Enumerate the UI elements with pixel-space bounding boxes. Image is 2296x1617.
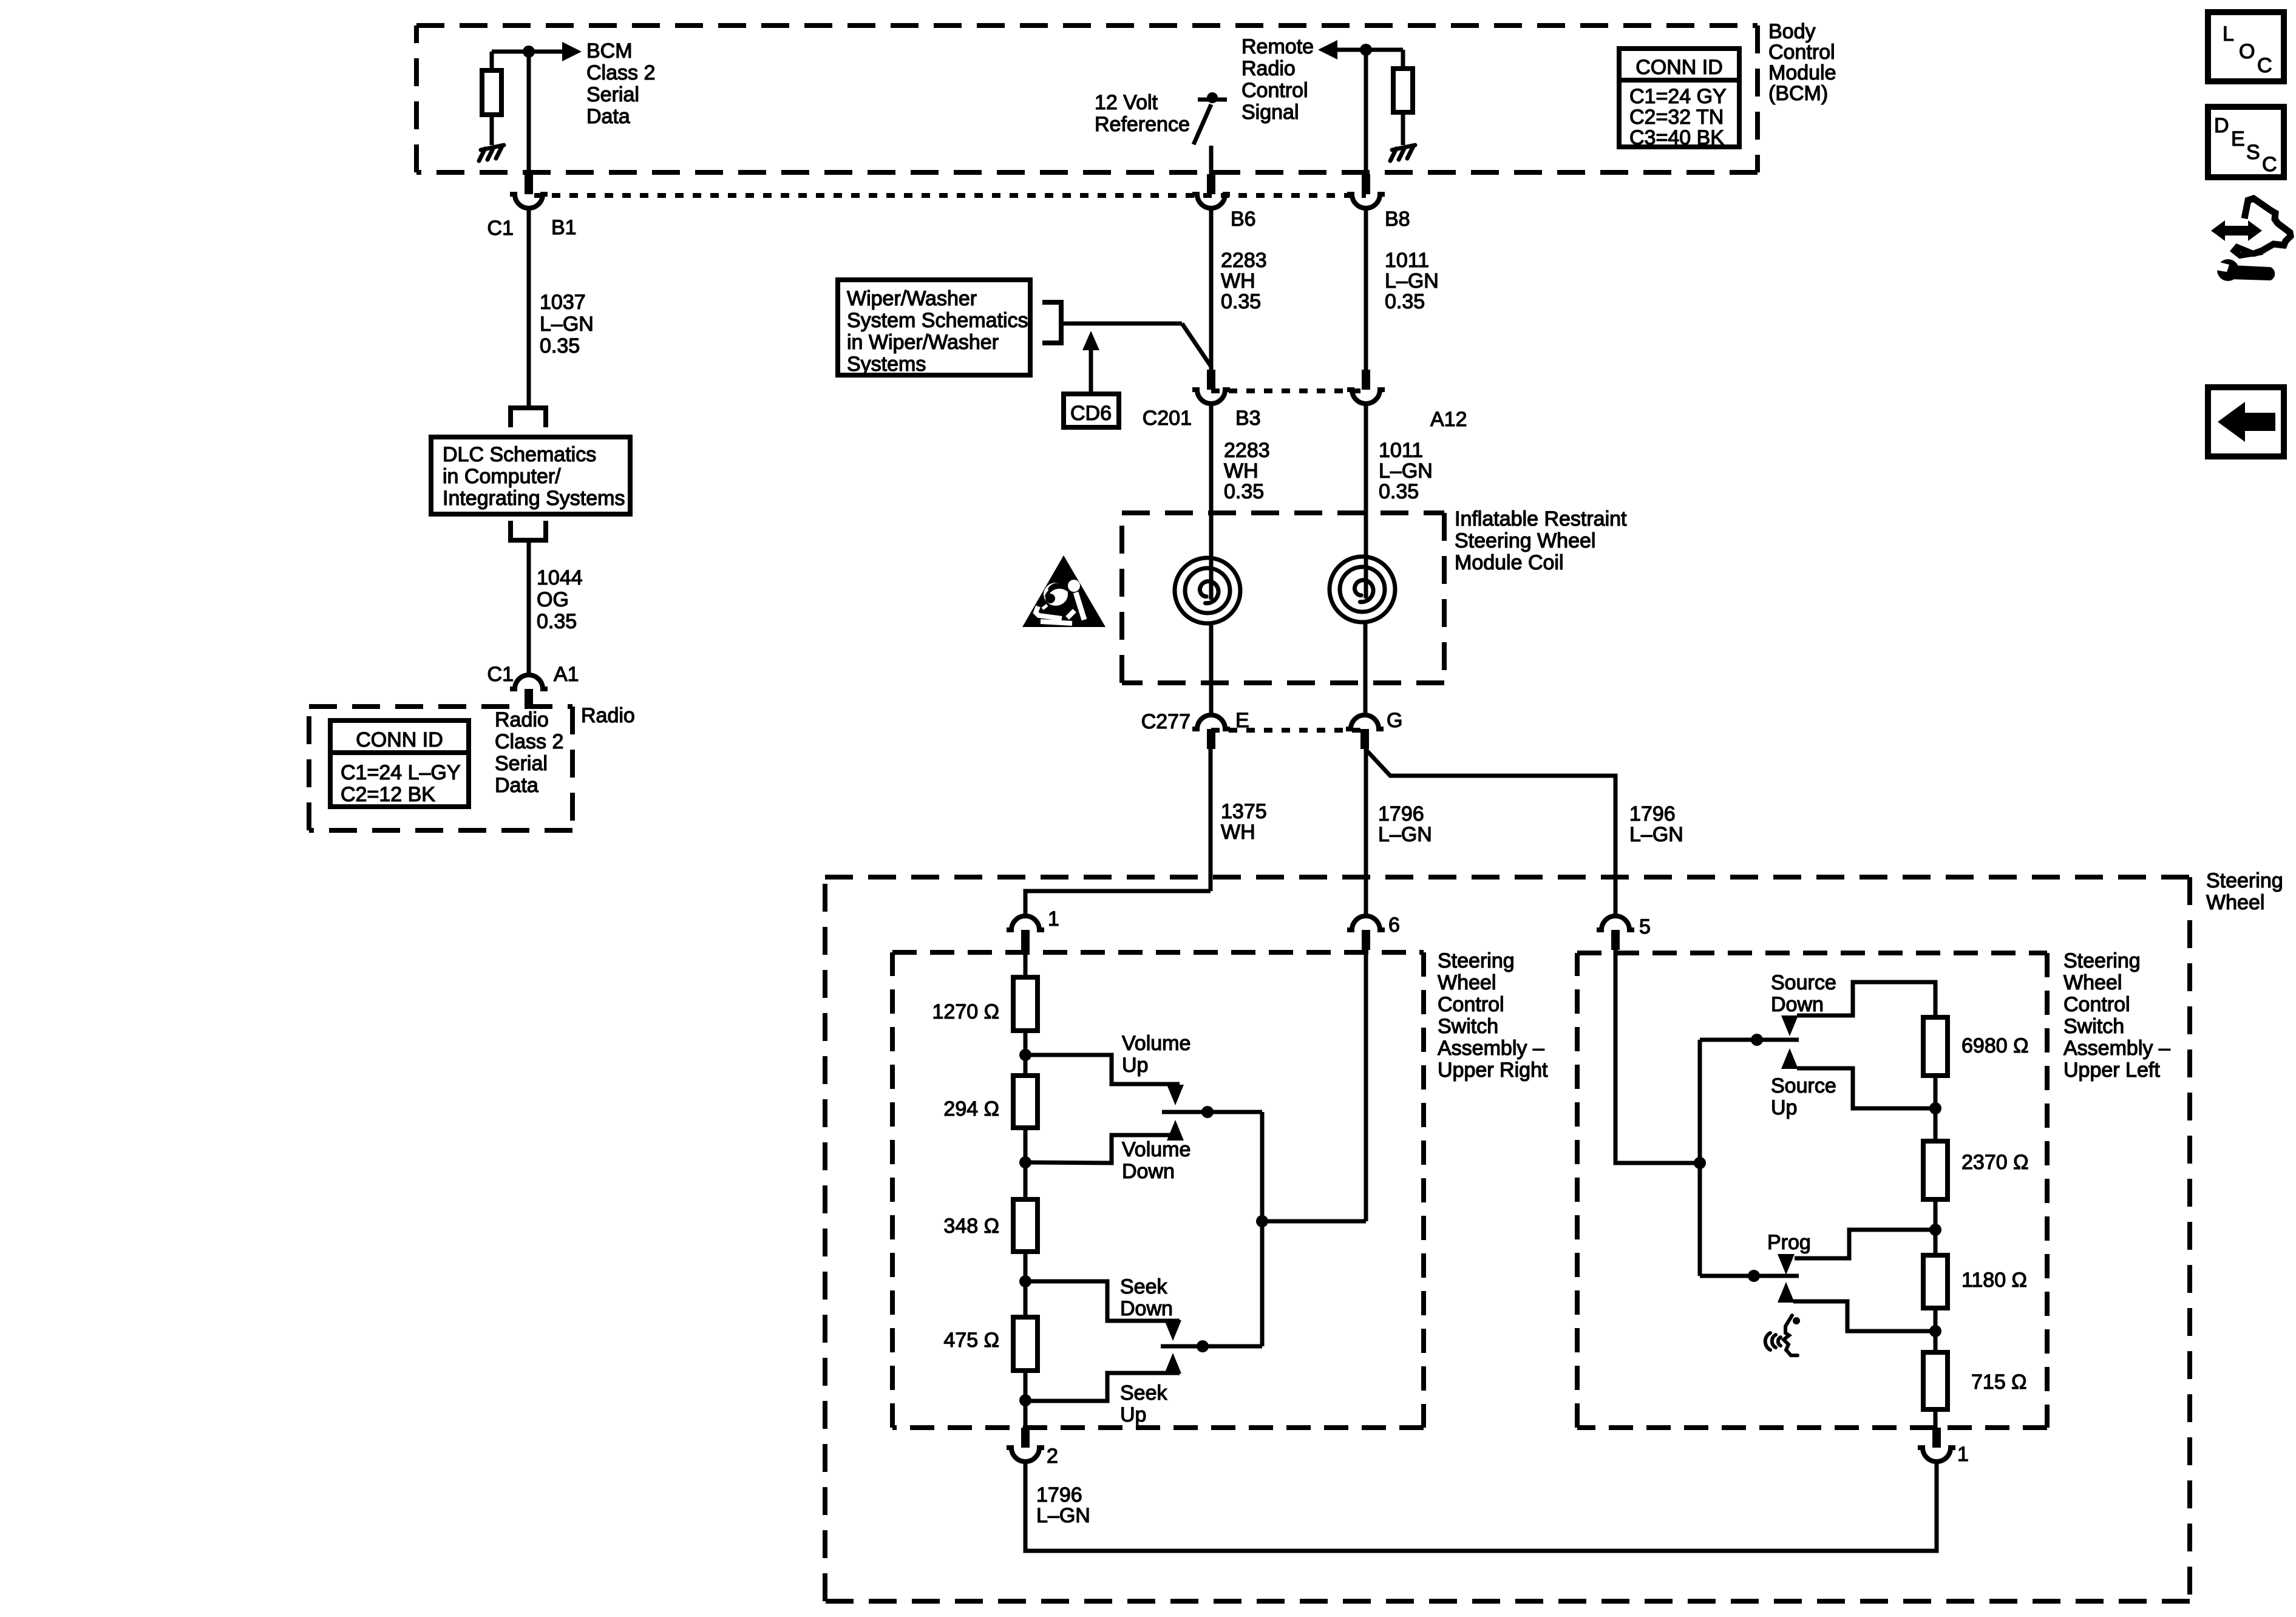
- svg-text:Down: Down: [1771, 993, 1824, 1016]
- wire: [1024, 1128, 1028, 1199]
- DLC Schematics box: [431, 437, 630, 514]
- svg-text:Wheel: Wheel: [2206, 891, 2264, 914]
- svg-text:Data: Data: [586, 105, 630, 128]
- wire diagonal to B3 pin: [1182, 324, 1211, 367]
- arrow CD6 to wire: [1089, 349, 1093, 394]
- svg-text:System Schematics: System Schematics: [847, 309, 1028, 332]
- coil (left): [1175, 558, 1240, 623]
- svg-text:Assembly –: Assembly –: [2063, 1037, 2170, 1060]
- svg-text:(BCM): (BCM): [1768, 82, 1828, 105]
- wire prog throw: [1795, 1230, 1935, 1258]
- resistor 2370 ohm: [1923, 1141, 1948, 1199]
- svg-text:Wheel: Wheel: [1438, 971, 1496, 994]
- wire source up throw: [1797, 1068, 1935, 1108]
- resistor 1270 ohm: [1013, 977, 1038, 1031]
- svg-text:Switch: Switch: [1438, 1015, 1498, 1038]
- svg-text:0.35: 0.35: [1224, 480, 1264, 503]
- Body Control Module (BCM) dashed box: [416, 25, 1758, 172]
- svg-text:OG: OG: [537, 588, 569, 611]
- Wiper/Washer System Schematics box: [838, 280, 1030, 375]
- svg-text:Wheel: Wheel: [2063, 971, 2122, 994]
- svg-text:12 Volt: 12 Volt: [1095, 91, 1158, 114]
- wire B8 to A12: [1364, 208, 1368, 370]
- svg-text:L–GN: L–GN: [1629, 823, 1683, 846]
- svg-text:B8: B8: [1385, 208, 1410, 231]
- svg-text:Down: Down: [1120, 1297, 1173, 1320]
- connector pin 6: [1347, 916, 1385, 950]
- connector pin 1 (bottom right): [1918, 1428, 1955, 1462]
- wire: [1024, 1031, 1028, 1076]
- svg-text:Control: Control: [1438, 993, 1504, 1016]
- svg-text:1375: 1375: [1221, 800, 1267, 823]
- wire 1375 WH down: [1209, 749, 1213, 891]
- wire into right coil: [1364, 404, 1368, 598]
- svg-text:Steering Wheel: Steering Wheel: [1455, 529, 1595, 552]
- svg-text:in Wiper/Washer: in Wiper/Washer: [847, 331, 999, 354]
- wire into left coil: [1209, 404, 1214, 600]
- switch arrow source up: [1781, 1048, 1798, 1069]
- Inflatable Restraint Steering Wheel Module Coil dashed box: [1122, 513, 1444, 683]
- svg-text:E: E: [1235, 709, 1249, 732]
- wire to B8 connector: [1364, 50, 1368, 174]
- svg-text:C1=24 GY: C1=24 GY: [1629, 85, 1727, 108]
- svg-text:Class 2: Class 2: [495, 730, 563, 753]
- svg-text:Down: Down: [1122, 1160, 1175, 1183]
- node seek common: [1197, 1340, 1209, 1352]
- wire BCM to C1/B1 connector: [527, 52, 531, 174]
- wire branch G to pin 5: [1365, 749, 1615, 916]
- connector B8: [1347, 174, 1385, 208]
- svg-text:Data: Data: [495, 774, 538, 797]
- junction node pin 5 tie: [1694, 1157, 1706, 1169]
- wire 1375 WH to pin 1: [1025, 891, 1211, 916]
- svg-text:0.35: 0.35: [1385, 290, 1425, 313]
- node volume up tap: [1019, 1049, 1031, 1061]
- switch arrow seek down: [1164, 1320, 1181, 1341]
- BCM CONN ID table: [1619, 49, 1739, 147]
- svg-text:Serial: Serial: [495, 752, 548, 775]
- node seek up tap: [1019, 1394, 1031, 1406]
- svg-text:B6: B6: [1231, 208, 1256, 231]
- resistor 294 ohm: [1013, 1076, 1038, 1128]
- bracket below DLC box: [511, 521, 546, 540]
- svg-text:Control: Control: [1241, 79, 1308, 102]
- svg-text:5: 5: [1639, 915, 1651, 938]
- wire pin 2 to pin 1 (bottom): [1025, 1462, 1937, 1551]
- wire prog switch common: [1700, 1274, 1799, 1278]
- svg-text:CD6: CD6: [1070, 402, 1112, 425]
- svg-text:CONN ID: CONN ID: [356, 728, 443, 751]
- node volume down tap: [1019, 1156, 1031, 1168]
- connector pin 1 (upper right assembly): [1007, 916, 1044, 950]
- bracket right of wiper box: [1042, 302, 1061, 343]
- svg-text:Volume: Volume: [1122, 1138, 1190, 1161]
- wire to pin 1: [1934, 1409, 1938, 1428]
- Radio dashed box: [309, 707, 572, 830]
- svg-text:C2=32 TN: C2=32 TN: [1629, 106, 1724, 129]
- svg-text:Switch: Switch: [2063, 1015, 2124, 1038]
- svg-text:1044: 1044: [537, 566, 583, 589]
- node prog common: [1748, 1270, 1760, 1282]
- svg-text:C: C: [2257, 54, 2272, 77]
- connector pin 5: [1597, 916, 1634, 950]
- svg-text:Steering: Steering: [1438, 949, 1515, 972]
- wire voice throw: [1793, 1301, 1935, 1331]
- CD6 reference box: [1064, 394, 1119, 427]
- svg-text:C3=40 BK: C3=40 BK: [1629, 126, 1724, 149]
- switch arrow prog: [1778, 1254, 1795, 1275]
- wire: [1934, 1199, 1938, 1255]
- svg-text:A1: A1: [554, 663, 579, 686]
- wire: [1024, 1252, 1028, 1317]
- node prog tap: [1929, 1224, 1941, 1236]
- svg-text:S: S: [2246, 141, 2260, 164]
- svg-text:D: D: [2214, 114, 2229, 137]
- ground (BCM left): [479, 145, 504, 161]
- switch arrow seek up: [1164, 1353, 1181, 1374]
- svg-text:WH: WH: [1221, 821, 1255, 844]
- svg-text:294 Ω: 294 Ω: [943, 1097, 999, 1120]
- svg-text:L–GN: L–GN: [1385, 269, 1439, 293]
- svg-text:Class 2: Class 2: [586, 61, 655, 84]
- svg-text:B3: B3: [1235, 407, 1261, 430]
- node seek down tap: [1019, 1275, 1031, 1287]
- svg-text:6: 6: [1388, 914, 1400, 937]
- svg-text:Systems: Systems: [847, 353, 926, 376]
- svg-text:A12: A12: [1430, 408, 1467, 431]
- wire remote radio signal: [1336, 48, 1403, 52]
- svg-text:L: L: [2223, 22, 2234, 46]
- Steering Wheel dashed box: [825, 877, 2190, 1601]
- icon voice recognition: [1765, 1315, 1798, 1355]
- svg-text:Signal: Signal: [1241, 101, 1299, 124]
- svg-text:C1=24 L–GY: C1=24 L–GY: [341, 761, 461, 784]
- svg-text:Up: Up: [1122, 1054, 1148, 1077]
- junction node commons to pin 6: [1256, 1215, 1268, 1227]
- wire right coil to C277 G: [1364, 622, 1368, 715]
- svg-text:Control: Control: [2063, 993, 2130, 1016]
- connector E (C277): [1192, 715, 1230, 749]
- svg-text:B1: B1: [551, 216, 577, 239]
- wire source switch common: [1700, 1038, 1799, 1042]
- svg-text:2283: 2283: [1224, 439, 1270, 462]
- wire resistor to ground (right): [1401, 112, 1405, 145]
- wire: [1934, 1076, 1938, 1141]
- svg-text:Radio: Radio: [581, 704, 635, 727]
- switch arrow voice: [1778, 1282, 1795, 1303]
- wire switch commons tie: [1260, 1112, 1265, 1346]
- switch arrow source down: [1781, 1015, 1798, 1036]
- wire seek down throw: [1025, 1281, 1180, 1321]
- svg-text:1: 1: [1957, 1443, 1969, 1466]
- svg-text:Steering: Steering: [2206, 869, 2283, 892]
- svg-text:1037: 1037: [540, 291, 586, 314]
- Steering Wheel Control Switch Assembly Upper Right dashed box: [892, 952, 1424, 1428]
- svg-text:Prog: Prog: [1767, 1231, 1811, 1254]
- svg-text:0.35: 0.35: [1379, 480, 1419, 503]
- wire source down throw: [1797, 982, 1935, 1017]
- wire 1037 to DLC schematics: [527, 208, 531, 408]
- svg-text:1011: 1011: [1379, 439, 1423, 462]
- svg-text:Radio: Radio: [495, 708, 549, 731]
- svg-text:1270 Ω: 1270 Ω: [932, 1000, 1000, 1023]
- svg-text:0.35: 0.35: [537, 610, 577, 633]
- svg-text:Wiper/Washer: Wiper/Washer: [847, 287, 977, 310]
- wire pin 6 down: [1364, 950, 1368, 1221]
- svg-text:1: 1: [1048, 907, 1059, 931]
- wire junction to pin 6: [1262, 1219, 1366, 1224]
- BCM terminating resistor (right): [1393, 69, 1413, 112]
- node source up tap: [1929, 1102, 1941, 1114]
- connector row C201 dotted line: [1211, 388, 1366, 393]
- connector C1/B1: [510, 174, 548, 208]
- wire resistor top: [490, 52, 494, 70]
- icon vehicle with wrench: [2211, 198, 2291, 281]
- resistor 6980 ohm: [1923, 1017, 1948, 1076]
- wire volume down throw: [1025, 1135, 1180, 1163]
- wire volume switch common: [1162, 1110, 1262, 1114]
- svg-text:348 Ω: 348 Ω: [943, 1215, 999, 1238]
- connector C1/A1 (radio): [510, 675, 548, 709]
- junction node (BCM serial data): [523, 46, 535, 58]
- svg-text:WH: WH: [1221, 269, 1255, 293]
- svg-text:L–GN: L–GN: [1379, 459, 1433, 483]
- svg-text:C: C: [2262, 153, 2277, 176]
- svg-text:Upper Left: Upper Left: [2063, 1059, 2160, 1082]
- svg-text:1796: 1796: [1378, 802, 1424, 825]
- svg-text:0.35: 0.35: [1221, 290, 1261, 313]
- wire left coil to C277 E: [1209, 623, 1214, 715]
- svg-text:1796: 1796: [1036, 1483, 1082, 1507]
- svg-text:Source: Source: [1771, 1074, 1836, 1097]
- svg-text:BCM: BCM: [586, 39, 633, 63]
- svg-text:1011: 1011: [1385, 249, 1429, 272]
- svg-text:2283: 2283: [1221, 249, 1267, 272]
- svg-text:CONN ID: CONN ID: [1635, 56, 1723, 79]
- connector pin 2: [1007, 1428, 1044, 1462]
- node volume common: [1201, 1106, 1214, 1118]
- svg-text:G: G: [1387, 709, 1402, 732]
- arrow BCM Class 2 Serial Data: [562, 42, 582, 61]
- wire switch to B6: [1209, 146, 1214, 174]
- svg-text:DLC Schematics: DLC Schematics: [443, 443, 596, 466]
- node voice tap: [1929, 1325, 1941, 1337]
- svg-text:Up: Up: [1771, 1096, 1797, 1119]
- svg-text:Source: Source: [1771, 971, 1836, 994]
- wire 1044 OG: [527, 540, 531, 675]
- wire to BCM Class 2 Serial Data arrow: [492, 50, 563, 54]
- svg-text:Assembly –: Assembly –: [1438, 1037, 1544, 1060]
- switch 12 Volt Reference: [1207, 92, 1218, 103]
- connector A12 (C201): [1347, 370, 1385, 404]
- coil (right): [1330, 557, 1395, 622]
- svg-text:Radio: Radio: [1241, 57, 1296, 80]
- Radio CONN ID table: [330, 720, 469, 807]
- svg-text:Integrating Systems: Integrating Systems: [443, 487, 625, 510]
- svg-text:Volume: Volume: [1122, 1032, 1190, 1055]
- svg-text:1180 Ω: 1180 Ω: [1961, 1269, 2027, 1292]
- svg-text:L–GN: L–GN: [540, 313, 594, 336]
- switch arrow volume up: [1167, 1085, 1184, 1105]
- switch arrow volume down: [1167, 1120, 1184, 1141]
- svg-text:Body: Body: [1768, 20, 1816, 43]
- arrow Remote Radio Control Signal: [1318, 40, 1337, 59]
- svg-text:Module Coil: Module Coil: [1455, 551, 1564, 574]
- svg-text:C277: C277: [1141, 710, 1190, 733]
- svg-text:1796: 1796: [1629, 802, 1676, 825]
- svg-text:C1: C1: [487, 217, 514, 240]
- wire wiper to B6/B3: [1061, 322, 1182, 326]
- svg-text:Control: Control: [1768, 41, 1835, 64]
- svg-text:Remote: Remote: [1241, 35, 1314, 58]
- wire pin 5 into assembly: [1615, 950, 1700, 1163]
- connector B6: [1192, 174, 1230, 208]
- resistor 1180 ohm: [1923, 1255, 1948, 1308]
- resistor 475 ohm: [1013, 1317, 1038, 1371]
- wire to resistor (right): [1401, 50, 1405, 69]
- bracket above DLC box: [511, 408, 546, 427]
- connector row C1/B1-B6-B8 dotted line: [534, 193, 1366, 198]
- wire resistor to ground: [490, 115, 494, 145]
- svg-text:O: O: [2239, 40, 2255, 63]
- svg-text:C2=12 BK: C2=12 BK: [341, 783, 435, 806]
- node source common: [1751, 1034, 1763, 1046]
- SRS warning triangle: [1022, 555, 1106, 627]
- wire common tie (upper left): [1698, 1040, 1702, 1276]
- svg-text:Reference: Reference: [1095, 113, 1190, 136]
- svg-text:Up: Up: [1120, 1403, 1146, 1426]
- svg-text:6980 Ω: 6980 Ω: [1961, 1034, 2029, 1057]
- ground (BCM right): [1390, 145, 1415, 161]
- svg-text:475 Ω: 475 Ω: [943, 1329, 999, 1352]
- svg-text:Seek: Seek: [1120, 1381, 1167, 1405]
- wire 1796 to pin 6: [1364, 749, 1368, 916]
- svg-text:2370 Ω: 2370 Ω: [1961, 1151, 2029, 1174]
- svg-text:Serial: Serial: [586, 83, 639, 106]
- wire B6 to B3: [1209, 208, 1214, 370]
- svg-text:Seek: Seek: [1120, 1275, 1167, 1298]
- svg-text:715 Ω: 715 Ω: [1971, 1371, 2027, 1394]
- wire seek switch common: [1161, 1344, 1262, 1349]
- connector row C277 dotted line: [1211, 728, 1365, 733]
- svg-text:C201: C201: [1143, 407, 1192, 430]
- svg-text:E: E: [2231, 127, 2245, 151]
- wire pin 1 to resistor chain: [1024, 950, 1028, 977]
- wire to pin 2: [1024, 1371, 1028, 1428]
- svg-text:Module: Module: [1768, 61, 1836, 84]
- svg-text:L–GN: L–GN: [1036, 1504, 1090, 1527]
- icon back arrow box: [2208, 387, 2284, 456]
- icon LOC box: [2208, 12, 2284, 81]
- svg-text:C1: C1: [487, 663, 514, 686]
- connector B3 (C201): [1192, 370, 1230, 404]
- svg-text:WH: WH: [1224, 459, 1258, 483]
- wire: [1934, 1308, 1938, 1352]
- resistor 715 ohm: [1923, 1352, 1948, 1409]
- svg-text:Steering: Steering: [2063, 949, 2141, 972]
- resistor 348 ohm: [1013, 1199, 1038, 1252]
- junction node (remote radio): [1360, 44, 1372, 56]
- svg-text:L–GN: L–GN: [1378, 823, 1432, 846]
- svg-text:Upper Right: Upper Right: [1438, 1059, 1548, 1082]
- svg-text:Inflatable Restraint: Inflatable Restraint: [1455, 507, 1627, 531]
- wire seek up throw: [1025, 1373, 1180, 1401]
- wire volume up throw: [1025, 1055, 1180, 1084]
- svg-text:0.35: 0.35: [540, 334, 580, 358]
- svg-text:2: 2: [1047, 1445, 1058, 1468]
- Steering Wheel Control Switch Assembly Upper Left dashed box: [1577, 953, 2047, 1428]
- icon DESC box: [2208, 107, 2284, 177]
- svg-text:in Computer/: in Computer/: [443, 465, 561, 488]
- BCM terminating resistor (left): [482, 70, 501, 115]
- connector G (C277): [1346, 715, 1384, 749]
